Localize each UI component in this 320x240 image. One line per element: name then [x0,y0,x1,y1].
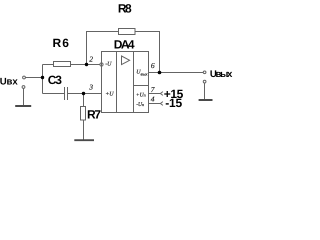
svg-text:2: 2 [89,55,93,64]
svg-text:Uвых: Uвых [210,69,233,80]
svg-text:7: 7 [151,85,155,94]
svg-text:-U: -U [105,62,112,68]
svg-text:+U: +U [105,92,114,98]
svg-text:Uвх: Uвх [0,77,18,88]
svg-text:Uвых: Uвых [136,70,147,77]
svg-text:R7: R7 [87,107,101,121]
svg-text:4: 4 [151,95,155,104]
svg-text:3: 3 [88,83,93,92]
svg-text:R6: R6 [53,36,70,50]
svg-text:C3: C3 [48,73,63,87]
svg-text:-15: -15 [165,96,182,110]
svg-text:6: 6 [151,61,155,70]
svg-text:DA4: DA4 [114,37,135,51]
svg-text:R8: R8 [118,2,132,16]
